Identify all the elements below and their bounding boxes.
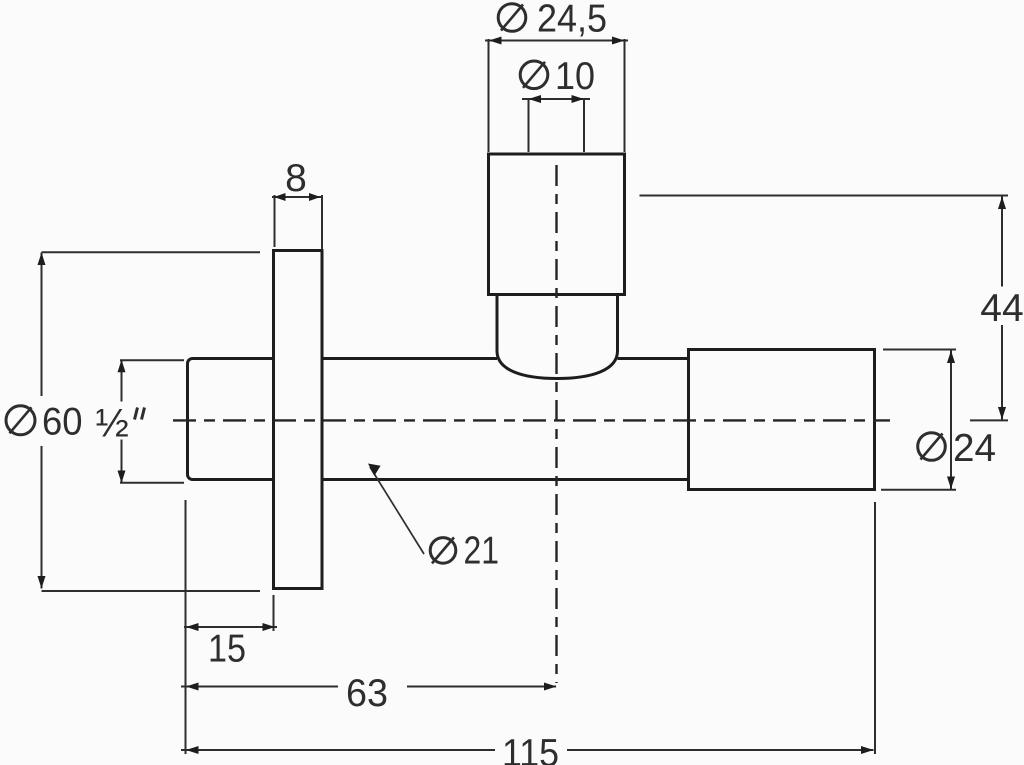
dim Ø10 line (522, 98, 590, 100)
svg-text:115: 115 (502, 732, 559, 765)
svg-text:10: 10 (555, 55, 595, 98)
dim 8 arrows (274, 193, 286, 201)
svg-text:15: 15 (208, 628, 246, 671)
svg-text:44: 44 (980, 287, 1023, 330)
dim 115 left extension line shared (185, 500, 187, 754)
leader Ø21 label (430, 538, 456, 564)
dim 115 right extension line (874, 502, 876, 754)
dim Ø24,5 arrows (489, 37, 502, 45)
dim Ø24 arrows (947, 351, 955, 364)
dim Ø24 label (918, 433, 946, 461)
dim 63 arrows (186, 683, 199, 691)
dim 44 line (1001, 197, 1003, 420)
dim 8 extension lines (275, 195, 323, 250)
leader Ø21 line (370, 467, 424, 554)
dim Ø10 extension lines (529, 98, 585, 152)
dim Ø10 label (520, 61, 548, 89)
dim 8 line (272, 196, 322, 198)
dim Ø60 line (41, 253, 43, 589)
dim Ø60 extension lines (42, 252, 261, 591)
outlet block right (689, 350, 875, 490)
dim 115 line (181, 749, 874, 751)
wall flange (274, 251, 323, 589)
svg-text:8: 8 (285, 157, 307, 200)
dim Ø10 arrows (529, 95, 542, 103)
dim Ø24 extension lines (881, 350, 956, 490)
dim 115 arrows (186, 746, 199, 754)
wire pipe top edge right segment (618, 357, 691, 360)
dim half-inch arrows (118, 360, 126, 373)
svg-text:24: 24 (953, 427, 996, 470)
dim half-inch line (121, 360, 123, 483)
svg-text:21: 21 (464, 530, 500, 573)
dim 44 arrows (998, 197, 1006, 210)
dim Ø60 label (6, 406, 35, 435)
dim Ø24,5 label (498, 4, 526, 32)
svg-text:60: 60 (42, 401, 83, 444)
svg-text:½: ½ (96, 402, 129, 446)
dim 15 arrows (186, 623, 199, 631)
dim Ø24 line (950, 351, 952, 490)
dim 15 right extension line (273, 595, 275, 631)
svg-text:63: 63 (346, 672, 388, 715)
dim half-inch extension lines (120, 360, 184, 483)
dim Ø24,5 line (485, 40, 628, 42)
dim 44 extension lines (640, 196, 1009, 421)
dim Ø60 arrows (38, 253, 46, 266)
leader Ø21 arrow (368, 464, 381, 476)
dim 15 line (184, 626, 277, 628)
centerline horizontal (173, 419, 890, 421)
wire pipe body outline (188, 359, 691, 480)
valve bonnet top block (489, 154, 625, 295)
svg-text:24,5: 24,5 (537, 0, 607, 41)
dim Ø24,5 extension lines (489, 39, 625, 152)
valve neck dome (497, 294, 618, 379)
dim 63 line (181, 686, 556, 688)
centerline vertical (555, 165, 557, 683)
